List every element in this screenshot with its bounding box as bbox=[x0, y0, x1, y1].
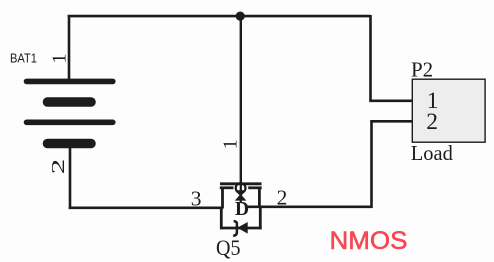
diode body triangle bbox=[237, 222, 247, 234]
connector P2 box bbox=[412, 79, 485, 142]
svg-text:1: 1 bbox=[48, 54, 70, 64]
svg-text:2: 2 bbox=[426, 109, 438, 135]
battery BAT1 plate 4 short bbox=[48, 139, 92, 149]
svg-text:2: 2 bbox=[48, 159, 68, 175]
wire bottom left horizontal bbox=[69, 207, 223, 210]
wire battery negative vertical bbox=[69, 145, 72, 209]
svg-text:P2: P2 bbox=[411, 58, 433, 82]
svg-text:Q5: Q5 bbox=[216, 235, 241, 260]
wire diode loop left vertical bbox=[220, 207, 223, 230]
battery BAT1 plate 1 long bbox=[27, 79, 113, 85]
wire right vertical upper bbox=[369, 15, 372, 101]
battery BAT1 plate 2 short bbox=[48, 97, 92, 107]
transistor Q5 bulk arrow down bbox=[235, 190, 246, 196]
wire diode loop bottom bbox=[220, 227, 262, 230]
wire battery positive vertical bbox=[68, 15, 71, 81]
wire bottom right horizontal bbox=[247, 206, 372, 209]
svg-text:Load: Load bbox=[411, 141, 453, 165]
svg-text:D: D bbox=[235, 199, 249, 220]
svg-text:1: 1 bbox=[220, 139, 242, 149]
transistor Q5 channel left segment bbox=[220, 186, 234, 189]
diode cathode bar schottky bbox=[233, 221, 237, 236]
wire gate vertical bbox=[240, 16, 242, 184]
transistor Q5 drain drop right bbox=[258, 187, 261, 208]
wire diode loop right vertical bbox=[259, 207, 262, 230]
wire right vertical lower bbox=[370, 121, 373, 208]
transistor Q5 bulk stem vertical bbox=[240, 184, 242, 202]
svg-text:3: 3 bbox=[191, 187, 202, 211]
transistor Q5 source drop left bbox=[221, 187, 224, 209]
svg-text:NMOS: NMOS bbox=[330, 227, 408, 255]
svg-text:BAT1: BAT1 bbox=[10, 50, 37, 65]
node junction dot bbox=[236, 12, 245, 21]
battery BAT1 plate 3 long bbox=[27, 120, 113, 126]
wire top horizontal bbox=[68, 15, 371, 18]
wire P2 pin1 stub bbox=[369, 100, 412, 103]
wire P2 pin2 stub bbox=[370, 120, 412, 123]
transistor Q5 gate bar bbox=[220, 182, 262, 185]
transistor Q5 bulk circle bbox=[236, 183, 246, 193]
transistor Q5 bulk arrow up bbox=[235, 194, 247, 201]
transistor Q5 channel right segment bbox=[248, 186, 262, 189]
